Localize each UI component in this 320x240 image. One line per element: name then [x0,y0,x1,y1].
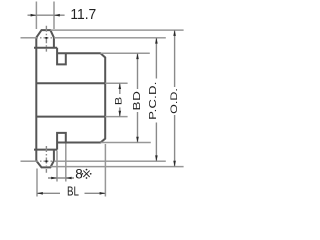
BL right extension [104,144,106,197]
sprocket body outline [34,30,105,167]
svg-text:BD: BD [131,91,143,111]
tooth vertical centerline bottom [45,146,47,173]
BD top extension [101,52,150,54]
dimension 8 line [48,177,74,179]
extension lines [36,2,183,197]
reference mark [83,171,89,177]
BL left arrow [37,192,43,195]
B top arrow [119,83,122,89]
svg-text:11.7: 11.7 [70,6,96,22]
bore bottom line [36,116,105,118]
BL left extension [36,169,38,197]
dimension O.D. line [174,30,176,167]
bore bottom extension [105,116,127,118]
tooth vertical centerline top [45,26,47,52]
BL right arrow [100,192,106,195]
11.7 left arrow [31,14,37,17]
8 left extension [56,151,58,182]
dimension BL line [37,192,105,194]
top tooth [36,30,54,48]
dimension B line [119,83,121,116]
boss outline [57,53,105,142]
BD bottom extension [101,142,151,144]
dimension BD line [137,53,139,142]
dimension P.C.D. line [155,38,157,161]
dimension 11.7 line [28,14,65,16]
svg-text:BL: BL [67,186,79,199]
center mark bottom tooth [45,160,47,162]
BD top arrow [136,53,139,59]
11.7 left extension [35,2,37,30]
BD bottom arrow [136,137,139,143]
bottom tooth [36,150,54,168]
left face [35,37,37,160]
svg-text:O.D.: O.D. [169,88,179,114]
center mark top tooth [45,37,47,39]
bottom root line [34,149,57,151]
bottom plate face and set screw hole [57,133,66,150]
bore top line [36,82,105,84]
O.D. bottom extension [50,166,183,168]
svg-text:P.C.D.: P.C.D. [148,81,158,119]
B bottom arrow [119,111,122,117]
pitch centerline bottom [21,160,166,162]
O.D. top arrow [173,30,176,36]
top root line [34,47,57,49]
8 right extension [65,144,67,182]
arrowheads [31,14,176,195]
top plate face and set screw hole [57,48,66,65]
11.7 right arrow [54,14,60,17]
P.C.D. top arrow [155,38,158,44]
bore top extension [105,82,127,84]
8 right arrow [66,177,72,180]
O.D. bottom arrow [173,161,176,167]
P.C.D. bottom arrow [155,155,158,161]
O.D. top extension [50,29,183,31]
svg-text:B: B [114,97,124,105]
11.7 right extension [53,2,55,30]
pitch centerline top [21,37,166,39]
8 left arrow [51,177,57,180]
